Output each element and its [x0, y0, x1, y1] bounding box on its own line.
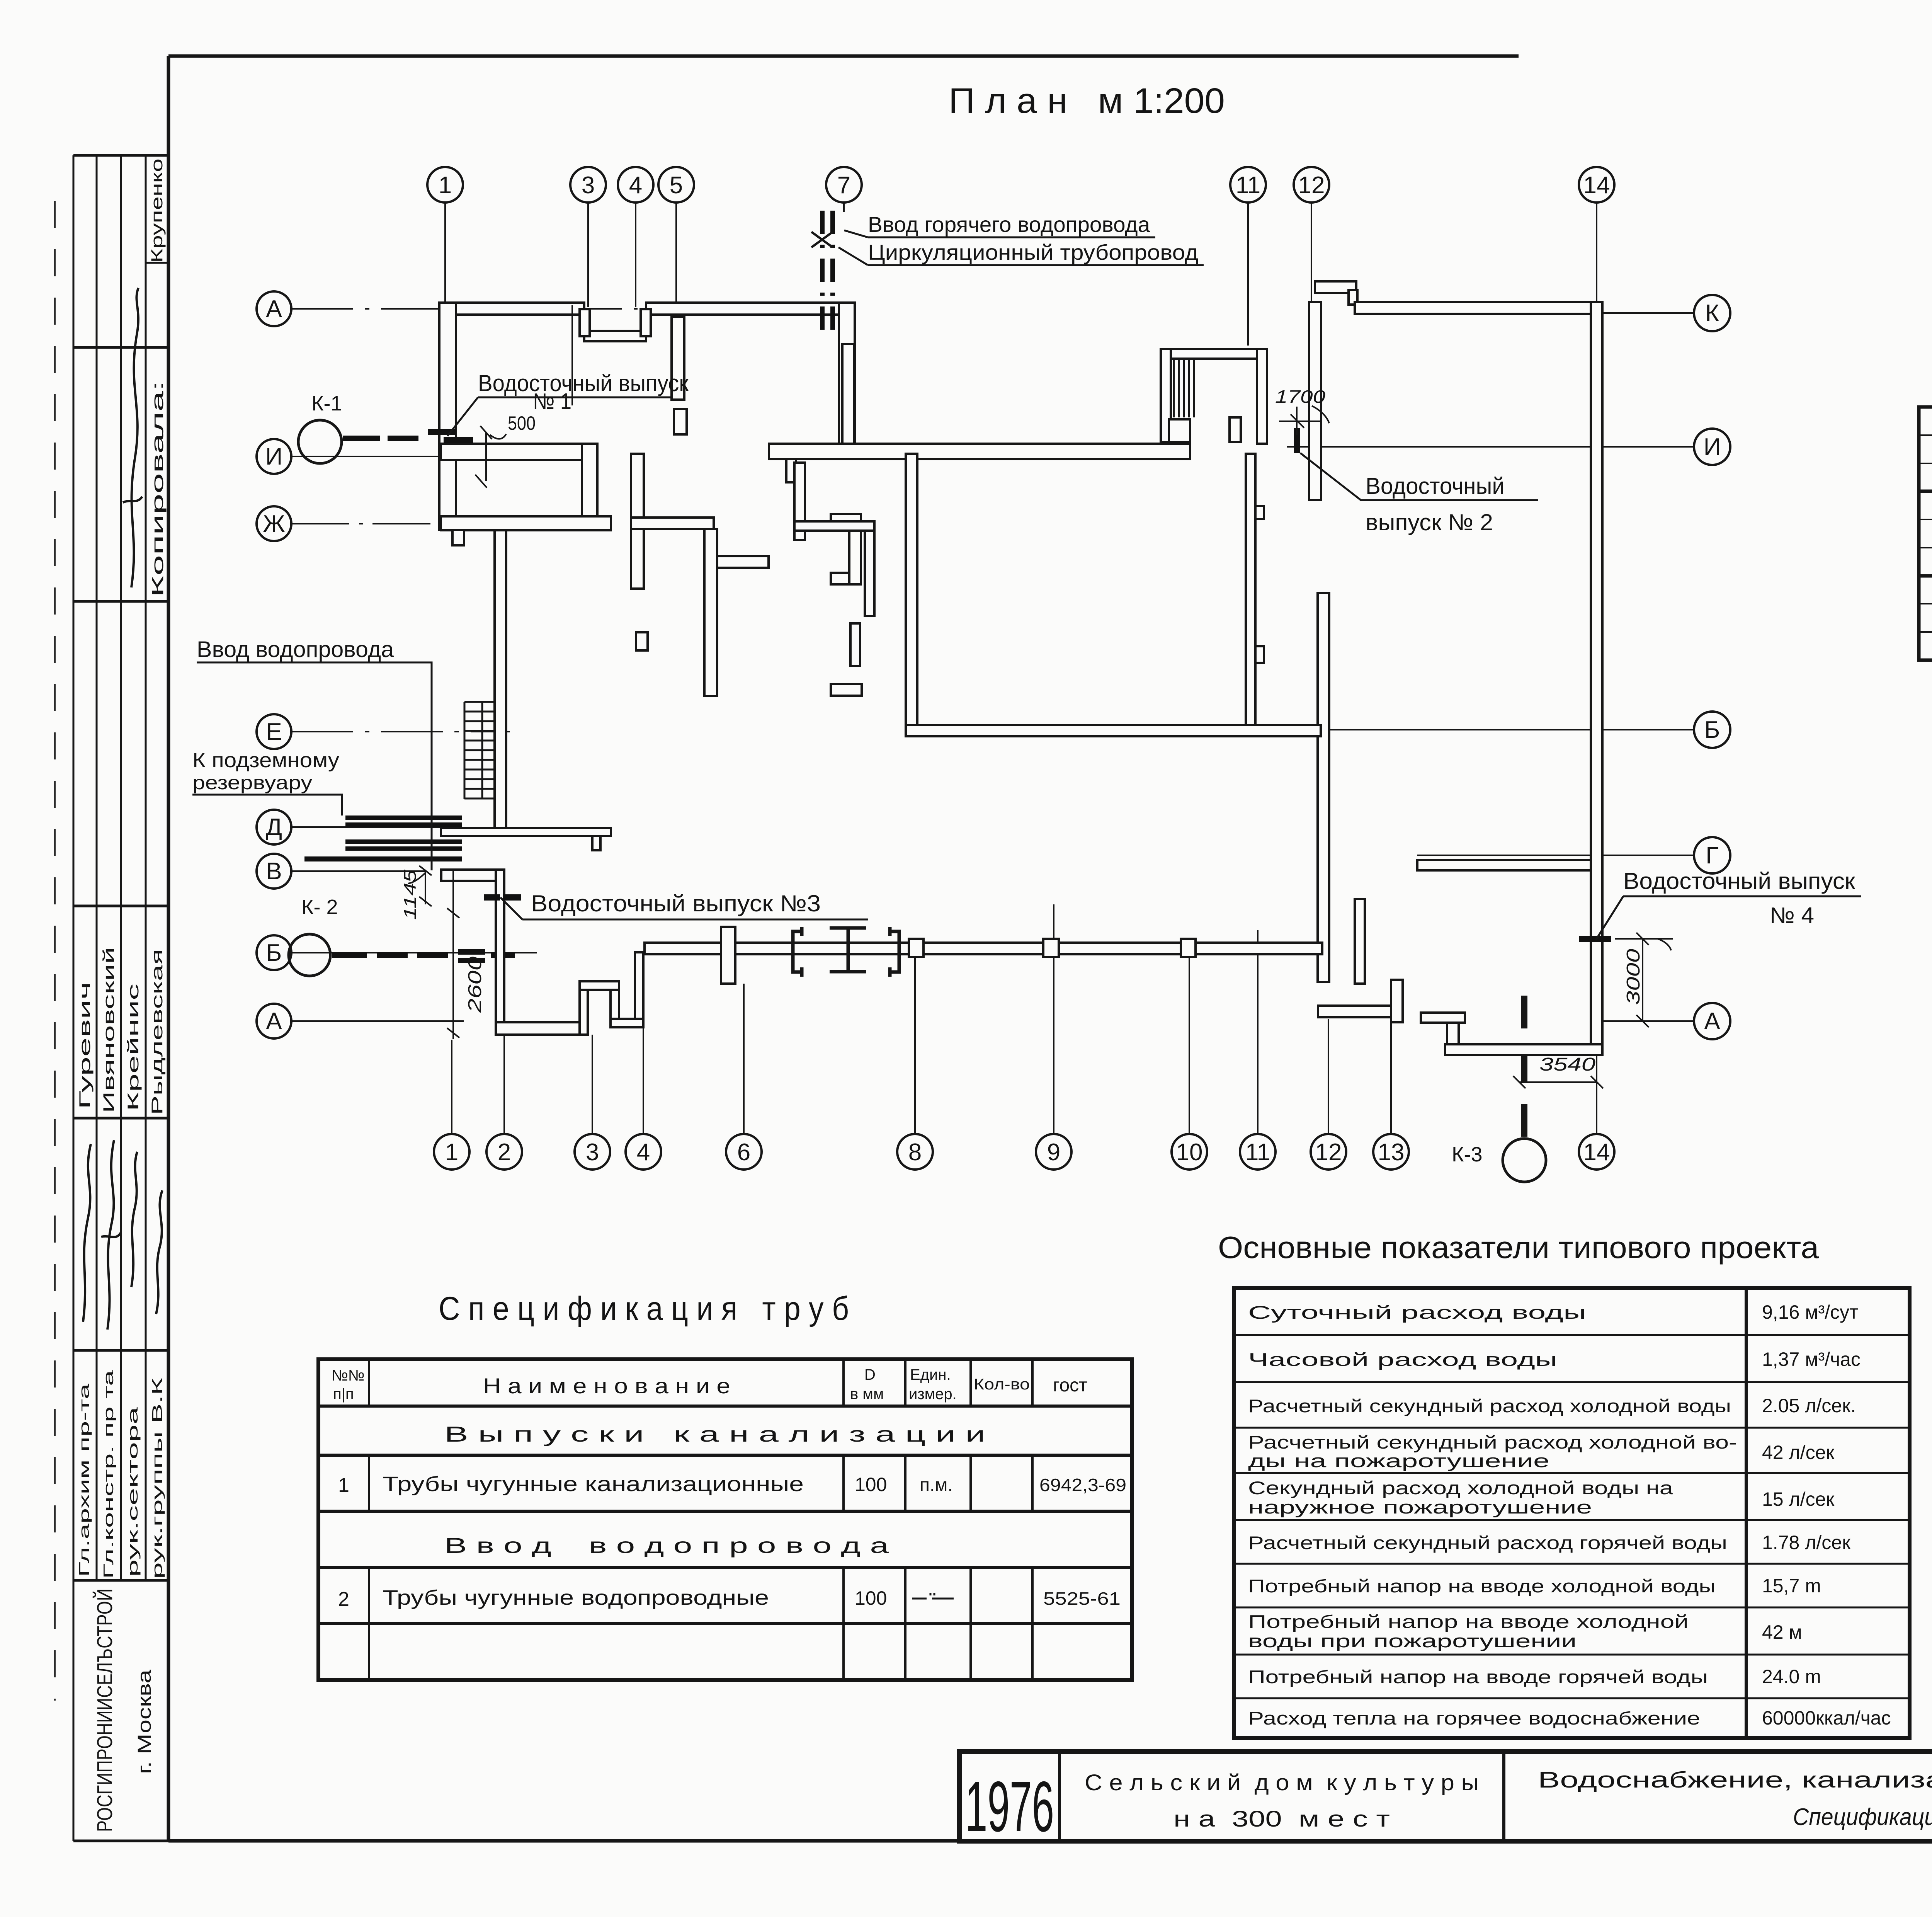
svg-text:Д: Д [266, 814, 282, 841]
wall interior vert x2180 [842, 344, 854, 444]
wall interior vert x1633 [631, 454, 644, 589]
svg-text:4: 4 [637, 1139, 650, 1166]
C-channel 2 [890, 927, 899, 977]
svg-text:11: 11 [1236, 172, 1260, 199]
svg-text:Расчетный секундный расход хол: Расчетный секундный расход холодной воды [1248, 1396, 1731, 1416]
svg-text:1: 1 [338, 1474, 349, 1496]
svg-text:1700: 1700 [1275, 386, 1326, 407]
axis circle 9 [1036, 1134, 1071, 1170]
svg-text:А: А [266, 296, 282, 322]
stairs left [464, 702, 494, 799]
wall column x1866 [721, 927, 735, 984]
svg-text:Потребный напор на вводе горяч: Потребный напор на вводе горячей воды [1248, 1667, 1708, 1687]
wall pilaster x2201 [850, 623, 860, 666]
svg-text:60000ккал/час: 60000ккал/час [1762, 1707, 1891, 1729]
wall small wall low [831, 684, 862, 696]
axis 12 leader [1311, 203, 1312, 442]
svg-text:2600: 2600 [465, 957, 485, 1013]
wall right block top wall [1355, 302, 1591, 314]
svg-text:гост: гост [1053, 1375, 1087, 1396]
svg-text:п|п: п|п [333, 1386, 354, 1403]
svg-text:Г: Г [1706, 842, 1719, 869]
wall ll vert to corridor [635, 952, 643, 1019]
axis 11 leader [1257, 930, 1259, 1134]
svg-text:г. Москва: г. Москва [134, 1670, 155, 1774]
wall pilaster c2 [1043, 939, 1059, 957]
axis Г line [1417, 855, 1694, 856]
svg-text:Спецификации.: Спецификации. [1793, 1804, 1932, 1830]
axis circle 3 [575, 1134, 610, 1170]
wall notch b [1255, 646, 1264, 663]
svg-text:Циркуляционный трубопровод: Циркуляционный трубопровод [868, 240, 1198, 264]
svg-text:12: 12 [1298, 172, 1325, 199]
hot water inlet pipes [822, 211, 833, 330]
wall stub below I wall [786, 459, 796, 482]
wall stair room left [1161, 349, 1171, 442]
axis 4 leader [635, 203, 636, 307]
axis 5 leader [675, 203, 677, 332]
axis circle 3 [570, 167, 606, 203]
svg-text:8: 8 [908, 1139, 922, 1166]
axis А line [291, 308, 638, 310]
svg-text:Кол-во: Кол-во [974, 1376, 1030, 1393]
svg-text:1.78 л/сек: 1.78 л/сек [1762, 1532, 1851, 1553]
svg-text:В: В [266, 858, 282, 885]
stairs mid [1174, 359, 1194, 417]
wall low room inner [1355, 899, 1365, 984]
svg-text:воды при пожаротушении: воды при пожаротушении [1248, 1631, 1577, 1651]
svg-text:1,37 м³/час: 1,37 м³/час [1762, 1348, 1861, 1370]
axis 11 leader [1247, 203, 1249, 346]
axis Ж line [291, 523, 497, 524]
svg-text:1976: 1976 [965, 1767, 1054, 1847]
svg-text:выпуск № 2: выпуск № 2 [1366, 509, 1493, 535]
svg-text:12: 12 [1315, 1139, 1342, 1166]
wall ll top [441, 870, 504, 881]
axis B mid line [920, 734, 1283, 736]
axis circle И [1694, 429, 1730, 465]
svg-text:РОСГИПРОНИИСЕЛЪСТРОЙ: РОСГИПРОНИИСЕЛЪСТРОЙ [92, 1588, 117, 1832]
svg-text:9,16 м³/сут: 9,16 м³/сут [1762, 1301, 1858, 1323]
svg-text:К-1: К-1 [311, 392, 342, 415]
wall ll bottom [496, 1022, 588, 1035]
svg-text:Трубы чугунные канализационные: Трубы чугунные канализационные [383, 1473, 804, 1496]
svg-text:42 м: 42 м [1762, 1621, 1802, 1643]
svg-text:14: 14 [1583, 172, 1610, 199]
svg-text:13: 13 [1378, 1139, 1405, 1166]
axis circle Д [257, 810, 291, 844]
axis В line [291, 870, 425, 872]
svg-text:К подземному: К подземному [192, 749, 339, 772]
wall ll step v2 [611, 990, 619, 1027]
wall right block right wall [1591, 302, 1602, 1055]
svg-text:24.0 m: 24.0 m [1762, 1666, 1821, 1687]
svg-text:Рыдлевская: Рыдлевская [149, 949, 166, 1115]
wall pilaster c1 [909, 939, 923, 957]
svg-text:Крейнис: Крейнис [125, 984, 142, 1111]
svg-text:D: D [864, 1366, 876, 1383]
svg-text:выпуск 1: выпуск 1 [1930, 412, 1932, 486]
svg-text:п.м.: п.м. [920, 1475, 953, 1495]
notch verticals [580, 309, 590, 336]
svg-text:рук.сектора: рук.сектора [125, 1406, 141, 1577]
axis circle 1 [434, 1134, 469, 1170]
wall block right wall [839, 303, 855, 451]
well K-1 [298, 420, 342, 463]
svg-text:11: 11 [1245, 1139, 1270, 1166]
wall P-room bottom [831, 573, 861, 584]
axis А line [291, 1020, 464, 1022]
wall low room vert [1391, 980, 1403, 1022]
svg-text:15 л/сек: 15 л/сек [1762, 1488, 1835, 1510]
wall right block left wall low [1318, 593, 1329, 982]
I-beam [830, 928, 866, 972]
outlet 2 mark [1294, 428, 1300, 453]
wall top wall right [646, 303, 855, 315]
svg-text:2: 2 [498, 1139, 511, 1166]
svg-text:1: 1 [439, 172, 452, 199]
axis 13 leader [1390, 1022, 1392, 1134]
svg-text:100: 100 [855, 1587, 887, 1609]
svg-text:Водосточный выпуск: Водосточный выпуск [1623, 868, 1855, 894]
axis 3 leader [587, 203, 589, 307]
axis 8 leader [914, 954, 916, 1134]
wall interior vert x2056 [794, 463, 805, 540]
table pipe specification [318, 1359, 1132, 1680]
svg-text:Б: Б [1704, 717, 1720, 743]
svg-text:Трубы чугунные водопроводные: Трубы чугунные водопроводные [383, 1586, 769, 1609]
axis Б line [1282, 729, 1694, 730]
svg-text:И: И [265, 443, 283, 470]
wall interior horiz y1349 [794, 521, 874, 531]
wall vert wall x1514 [582, 444, 597, 519]
svg-text:Потребный напор на вводе холод: Потребный напор на вводе холодной воды [1248, 1576, 1716, 1596]
reservoir pipes [304, 815, 462, 861]
outlet 4 mark [1579, 936, 1611, 942]
wall notch vert [1349, 290, 1357, 305]
wall I-row wall [441, 444, 597, 460]
wall interior horiz y1339 [631, 518, 714, 529]
svg-text:Е: Е [266, 718, 282, 745]
wall interior stub y1439 [717, 556, 769, 568]
svg-text:Един.: Един. [910, 1366, 951, 1383]
wall step vert [1447, 1023, 1459, 1044]
axis 14 leader [1596, 1021, 1597, 1134]
svg-text:3000: 3000 [1623, 949, 1644, 1005]
axis circle К [1694, 295, 1730, 331]
axis 6 leader [743, 984, 745, 1134]
axis circle Б [1694, 712, 1730, 748]
svg-text:Часовой расход воды: Часовой расход воды [1248, 1349, 1557, 1370]
wall D-row T [592, 836, 600, 850]
svg-text:Секундный расход холодной воды: Секундный расход холодной воды на [1248, 1478, 1673, 1498]
wall middle room left wall [906, 454, 917, 725]
axis circle 6 [726, 1134, 762, 1170]
svg-text:наружное пожаротушение: наружное пожаротушение [1248, 1497, 1592, 1517]
axis 12 leader [1328, 1019, 1329, 1134]
axis Д line [291, 826, 454, 828]
svg-text:Суточный расход воды: Суточный расход воды [1248, 1302, 1586, 1323]
svg-text:в мм: в мм [850, 1386, 884, 1403]
wall interior vert x2238 [865, 531, 874, 616]
axis 9 leader [1053, 904, 1054, 1134]
axis 1 leader [451, 1040, 452, 1134]
svg-text:№№: №№ [332, 1367, 365, 1384]
svg-text:П л а н м 1:200: П л а н м 1:200 [949, 81, 1225, 121]
wall stair room right [1257, 349, 1267, 444]
axis 10 leader [1189, 954, 1190, 1134]
svg-text:К-3: К-3 [1452, 1143, 1482, 1166]
axis circle Б [257, 935, 291, 970]
svg-text:1: 1 [445, 1139, 458, 1166]
wall top wall left [441, 303, 584, 315]
svg-text:Водосточный выпуск №3: Водосточный выпуск №3 [531, 890, 821, 916]
wall stair room top [1161, 349, 1267, 359]
wall I long wall [769, 444, 1190, 459]
svg-text:Водосточный выпуск: Водосточный выпуск [478, 370, 689, 396]
svg-text:Н а и м е н о в а н и е: Н а и м е н о в а н и е [483, 1374, 730, 1398]
axis 4 leader [643, 1027, 644, 1134]
svg-text:Копировала:: Копировала: [148, 381, 167, 597]
axis 14 leader [1596, 203, 1597, 302]
svg-text:15,7 m: 15,7 m [1762, 1575, 1821, 1597]
table sewer outlet marks [1919, 407, 1932, 660]
wall P-room top [831, 514, 861, 526]
svg-text:1145: 1145 [401, 869, 420, 920]
wall Zh T-stub [452, 530, 464, 545]
svg-text:И: И [1704, 434, 1721, 460]
well K-3 [1503, 1139, 1546, 1182]
svg-text:2: 2 [338, 1588, 349, 1611]
svg-text:Ж: Ж [263, 511, 285, 537]
svg-text:4: 4 [629, 172, 642, 199]
wall pilaster c3 [1181, 939, 1196, 957]
left signature strip [73, 155, 168, 1841]
svg-text:А: А [266, 1008, 282, 1035]
axis circle 1 [427, 167, 463, 203]
wall notch a [1255, 506, 1264, 519]
fold dashed line [54, 201, 56, 1701]
title block [959, 1752, 1932, 1841]
wall left wall [439, 303, 456, 530]
svg-text:рук.группы В.К: рук.группы В.К [149, 1378, 165, 1579]
svg-text:7: 7 [837, 172, 850, 199]
axis circle Ж [257, 506, 291, 541]
svg-text:С п е ц и ф и к а ц и я т р: С п е ц и ф и к а ц и я т р у б [439, 1290, 849, 1327]
axis Б line [291, 952, 537, 953]
axis А line [1603, 1020, 1694, 1022]
axis circle 8 [897, 1134, 933, 1170]
wall stair box [1169, 419, 1190, 442]
axis circle 11 [1230, 167, 1266, 203]
wall D-row wall [441, 828, 611, 836]
wall pilaster x3182 [1230, 417, 1241, 442]
svg-text:Водоснабжение, канализация и: Водоснабжение, канализация и водостоки [1538, 1767, 1932, 1793]
axis circle 14 [1579, 167, 1614, 203]
svg-text:К: К [1705, 300, 1719, 327]
axis circle 2 [486, 1134, 522, 1170]
axis 1 leader [444, 203, 446, 336]
svg-text:С е л ь с к и й д о м к у л: С е л ь с к и й д о м к у л ь т у р ы [1085, 1770, 1479, 1795]
svg-text:10: 10 [1176, 1139, 1203, 1166]
wall middle room right wall [1246, 454, 1255, 725]
wall ll step h1 [580, 981, 619, 990]
svg-text:42 л/сек: 42 л/сек [1762, 1442, 1835, 1463]
svg-text:Гл.архим пр-та: Гл.архим пр-та [76, 1383, 92, 1577]
svg-text:Расчетный секундный расход гор: Расчетный секундный расход горячей воды [1248, 1532, 1727, 1553]
svg-text:Основные показатели типового п: Основные показатели типового проекта [1218, 1230, 1819, 1265]
svg-text:3540: 3540 [1539, 1054, 1595, 1075]
svg-text:2.05 л/сек.: 2.05 л/сек. [1762, 1395, 1856, 1416]
svg-text:Крупенко: Крупенко [148, 158, 166, 263]
wall ll left [496, 870, 504, 1035]
wall G-row wall [1417, 860, 1591, 870]
svg-text:Ивяновский: Ивяновский [100, 947, 117, 1113]
wall corridor wall [645, 943, 1322, 954]
axis circle А [257, 291, 291, 326]
wall low room bottom [1318, 1006, 1403, 1017]
svg-text:9: 9 [1047, 1139, 1060, 1166]
svg-text:Водосточный: Водосточный [1366, 473, 1505, 499]
axis И line [1287, 446, 1694, 448]
svg-text:ды на пожаротушение: ды на пожаротушение [1248, 1451, 1549, 1471]
axis circle А [257, 1004, 291, 1039]
outlet 3 mark [484, 894, 521, 901]
svg-text:Расход тепла на горячее водосн: Расход тепла на горячее водоснабжение [1248, 1708, 1700, 1728]
well K-2 [289, 934, 330, 976]
svg-text:Ввод горячего водопровода: Ввод горячего водопровода [868, 212, 1150, 237]
svg-text:В в о д в о д о п р о в о д: В в о д в о д о п р о в о д а [444, 1533, 889, 1558]
wall interior vert x1823 [704, 529, 717, 696]
axis circle 14 [1579, 1134, 1614, 1170]
axis circle 5 [658, 167, 694, 203]
axis И line [291, 456, 456, 457]
wall entrance notch [584, 331, 646, 341]
axis circle 10 [1172, 1134, 1207, 1170]
svg-text:5: 5 [670, 172, 683, 199]
axis circle 12 [1311, 1134, 1346, 1170]
wall P-room right [849, 526, 861, 584]
svg-text:3: 3 [586, 1139, 599, 1166]
axis circle 13 [1373, 1134, 1409, 1170]
axis circle А [1694, 1003, 1730, 1039]
table main indicators [1234, 1288, 1910, 1738]
wall right block bottom wall [1445, 1044, 1602, 1055]
svg-text:6: 6 [737, 1139, 750, 1166]
axis5 wall tail [672, 317, 684, 400]
axis circle 4 [626, 1134, 661, 1170]
wall right block left wall up [1309, 302, 1321, 500]
svg-text:№ 4: № 4 [1770, 903, 1814, 928]
wall ll step v1 [580, 981, 588, 1035]
wall B-row wall [906, 725, 1321, 736]
svg-text:№ 1: № 1 [533, 389, 571, 414]
handwritten signatures (cursive squiggles) [83, 288, 162, 1330]
axis 3 leader [592, 1035, 593, 1134]
svg-text:выпуск 2: выпуск 2 [1930, 497, 1932, 570]
svg-text:Потребный напор на вводе холод: Потребный напор на вводе холодной [1248, 1611, 1689, 1632]
axis К line [1575, 312, 1694, 314]
wall notch top band [1315, 281, 1356, 293]
svg-text:14: 14 [1583, 1139, 1610, 1166]
svg-text:5525-61: 5525-61 [1043, 1588, 1121, 1609]
svg-text:К- 2: К- 2 [301, 896, 338, 919]
axis 2 leader [503, 914, 505, 1134]
svg-text:Гл.констр. пр та: Гл.констр. пр та [100, 1369, 116, 1579]
axis circle Г [1694, 837, 1730, 873]
svg-text:100: 100 [855, 1474, 887, 1495]
svg-text:резервуару: резервуару [192, 772, 312, 793]
svg-text:н а 300 м е с т: н а 300 м е с т [1173, 1806, 1390, 1832]
wall Zh wall [441, 516, 611, 530]
svg-text:500: 500 [508, 412, 536, 434]
svg-text:Расчетный секундный расход хол: Расчетный секундный расход холодной во- [1248, 1432, 1737, 1452]
axis Е line [291, 731, 510, 732]
svg-text:Гуревич: Гуревич [77, 982, 94, 1109]
axis circle 7 [826, 167, 862, 203]
wall pilaster x1639 [636, 632, 648, 650]
axis circle Е [257, 714, 291, 749]
axis circle В [257, 854, 291, 889]
svg-text:3: 3 [582, 172, 595, 199]
outlet 1 mark [428, 429, 473, 443]
axis circle И [257, 439, 291, 474]
wall stair hall wall [495, 530, 506, 836]
svg-text:Б: Б [266, 940, 282, 966]
svg-text:выпуск 3: выпуск 3 [1930, 581, 1932, 655]
axis circle 11 [1240, 1134, 1276, 1170]
axis circle 4 [618, 167, 653, 203]
wall step horiz [1421, 1013, 1465, 1023]
svg-text:6942,3-69: 6942,3-69 [1039, 1475, 1126, 1495]
wall ll step h2 [611, 1019, 643, 1027]
svg-text:В ы п у с к и к а н а л и з: В ы п у с к и к а н а л и з а ц и и [444, 1422, 985, 1446]
svg-text:А: А [1704, 1008, 1720, 1035]
C-channel 1 [793, 927, 802, 977]
svg-text:Ввод водопровода: Ввод водопровода [197, 637, 394, 662]
axis 7 leader [843, 203, 845, 212]
axis circle 12 [1294, 167, 1329, 203]
svg-text:измер.: измер. [909, 1386, 957, 1403]
